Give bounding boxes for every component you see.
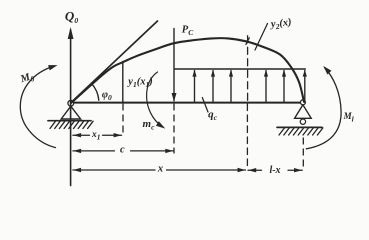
- svg-text:c: c: [120, 144, 125, 155]
- svg-text:x: x: [157, 164, 163, 175]
- svg-text:y1(x1): y1(x1): [126, 77, 152, 90]
- svg-text:x1: x1: [91, 130, 101, 142]
- svg-text:l-x: l-x: [269, 165, 280, 176]
